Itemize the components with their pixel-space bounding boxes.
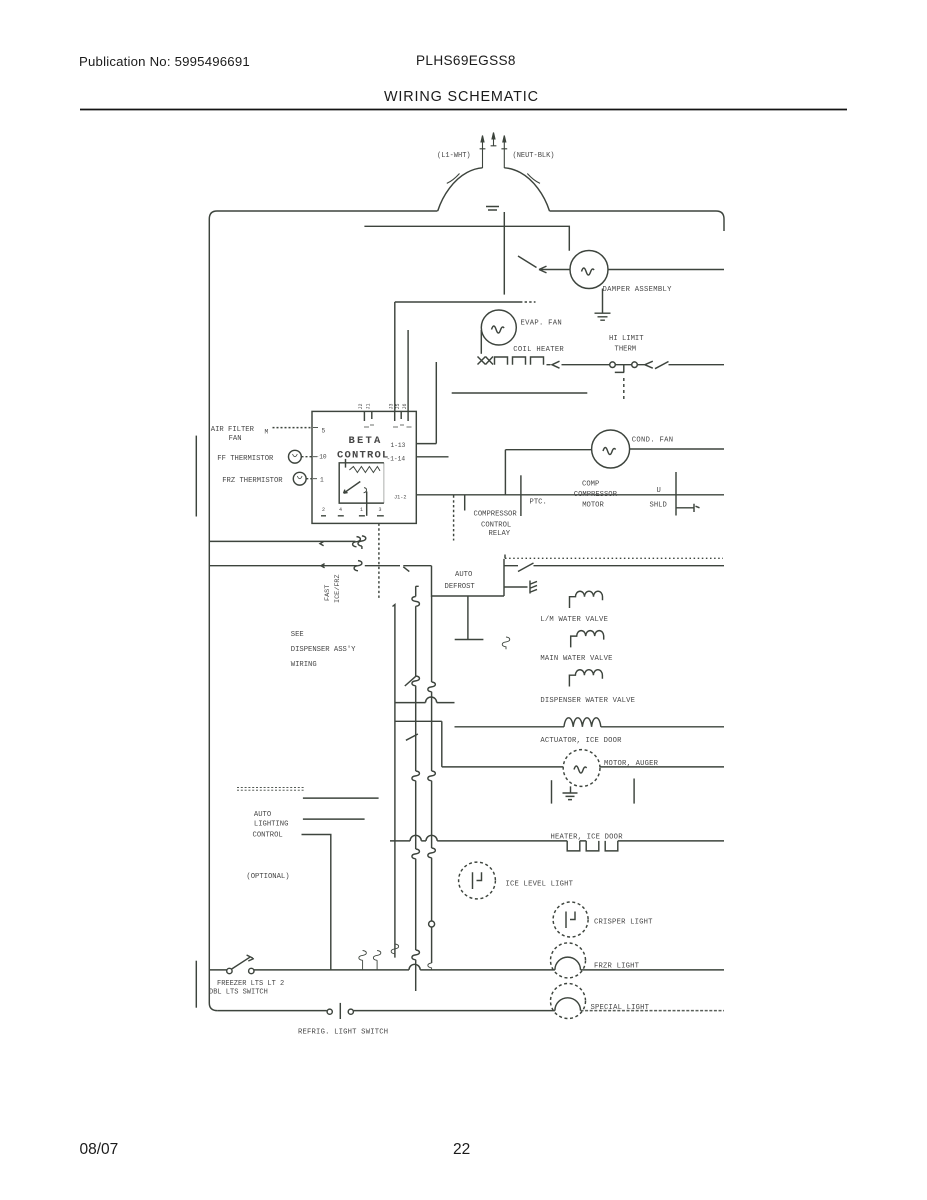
ice level light dashed circle <box>459 862 496 899</box>
wire heater to bimetal <box>562 364 610 366</box>
heater row arrow connector <box>547 361 560 368</box>
board left pin ticks <box>313 428 318 479</box>
svg-text:DISPENSER ASS'Y: DISPENSER ASS'Y <box>291 646 356 654</box>
connector tick on y541 <box>320 542 324 546</box>
svg-text:AUTO: AUTO <box>455 571 472 579</box>
svg-text:L/M WATER VALVE: L/M WATER VALVE <box>540 616 608 624</box>
heater ice door rail with hops over bus B and C <box>390 835 567 841</box>
svg-text:2: 2 <box>322 507 325 513</box>
svg-text:SPECIAL LIGHT: SPECIAL LIGHT <box>591 1004 650 1012</box>
wire into board top pin at x408 <box>407 330 409 411</box>
svg-text:ICE LEVEL LIGHT: ICE LEVEL LIGHT <box>506 880 574 888</box>
crisper light dashed circle <box>553 902 588 937</box>
water valve L/M coil <box>570 591 603 608</box>
special light dashed circle <box>551 984 586 1019</box>
auger motor squiggle <box>574 766 587 773</box>
auger ground symbol <box>563 786 578 799</box>
auto defrost box <box>432 559 505 596</box>
ice level light filament bars <box>473 872 482 889</box>
svg-text:FAN: FAN <box>229 435 242 443</box>
svg-text:EVAP. FAN: EVAP. FAN <box>521 320 563 328</box>
power plug inner strain flares <box>447 174 540 184</box>
svg-text:(NEUT-BLK): (NEUT-BLK) <box>513 152 555 160</box>
lighting control wire D with long drop <box>302 835 331 970</box>
freezer lamp dashed circle <box>551 943 586 978</box>
long vertical bus A (x394.9) <box>393 605 395 958</box>
relay vertical through box bottom to pin <box>366 492 368 516</box>
relay contact curl <box>364 488 367 493</box>
actuator coil bumps <box>564 718 601 727</box>
water valve DISPENSER coil <box>569 670 602 687</box>
svg-text:FRZR LIGHT: FRZR LIGHT <box>594 962 640 970</box>
svg-text:3: 3 <box>379 507 382 513</box>
defrost rail from left edge <box>209 565 357 567</box>
dispenser branch wire y702.6 with hop over bus C <box>395 697 455 703</box>
dashed leader FF thermistor <box>302 456 313 458</box>
defrost bimetal terminal right <box>632 362 638 368</box>
svg-text:(L1-WHT): (L1-WHT) <box>437 152 471 160</box>
auger motor wire right to edge <box>600 766 724 768</box>
bus A bottom hook <box>391 944 399 954</box>
overload shield vertical <box>675 472 677 516</box>
outer cabinet box: top rail left segment <box>217 210 438 212</box>
svg-text:4: 4 <box>339 507 342 513</box>
svg-text:ICE/FRZ: ICE/FRZ <box>334 574 342 603</box>
svg-text:DISPENSER WATER VALVE: DISPENSER WATER VALVE <box>540 697 635 705</box>
svg-text:COIL HEATER: COIL HEATER <box>513 346 564 354</box>
branch wire y721.3 turning down <box>395 721 442 767</box>
svg-text:ACTUATOR, ICE DOOR: ACTUATOR, ICE DOOR <box>540 737 622 745</box>
condenser fan feed wire <box>505 449 591 451</box>
power plug prong L1 <box>480 136 486 169</box>
power plug prong ground (center) <box>491 133 497 147</box>
left margin segment upper <box>195 436 197 517</box>
svg-text:CRISPER LIGHT: CRISPER LIGHT <box>594 918 653 926</box>
svg-text:FREEZER LTS LT 2: FREEZER LTS LT 2 <box>217 980 284 988</box>
bottom rail segment right of special light (faded in scan) <box>581 1010 725 1012</box>
freezer door switch contact right <box>249 968 254 973</box>
ground symbol under damper <box>595 289 611 321</box>
defrost coil heater loops <box>495 357 544 365</box>
svg-text:1: 1 <box>360 507 363 513</box>
compressor relay right vertical <box>520 475 522 516</box>
heater ice door loops <box>567 841 724 851</box>
svg-text:5: 5 <box>322 428 326 435</box>
condenser fan wire to right edge <box>630 448 725 450</box>
long compressor rail y495 from board right pin <box>416 494 724 496</box>
svg-text:08/07: 08/07 <box>80 1141 119 1158</box>
connector stub hooks above freezer rail <box>359 951 367 970</box>
auger motor wire left <box>442 766 563 768</box>
wire stub from board pin 1-14 <box>416 456 448 458</box>
svg-text:LIGHTING: LIGHTING <box>254 820 289 828</box>
svg-text:FRZ THERMISTOR: FRZ THERMISTOR <box>222 477 283 485</box>
capacitor bar left of auger <box>551 780 553 803</box>
freezer door switch blade with arrow <box>232 955 254 969</box>
svg-text:M: M <box>265 429 269 436</box>
actuator ice door wire left <box>455 726 565 728</box>
svg-text:CONTROL: CONTROL <box>253 831 283 839</box>
wire: vertical drop from plug neutral to FF loop <box>503 212 505 295</box>
freezer light rail to lamp <box>254 969 409 971</box>
dispenser switch blade upper <box>405 676 416 686</box>
outer cabinet box: bottom rail (light circuit) left of door switch <box>217 1010 326 1012</box>
FF thermistor glyph <box>293 454 298 457</box>
drop from cond fan wire to compressor relay <box>504 450 506 496</box>
svg-text:BETA: BETA <box>349 435 383 447</box>
defrost timer switch blade <box>403 567 409 572</box>
dashed leader FRZ thermistor <box>306 478 312 480</box>
chassis ground symbol <box>530 581 537 594</box>
defrost coil heater crossed-wire marks <box>478 357 494 365</box>
inline connector hook on defrost rail <box>354 561 362 571</box>
svg-text:J3: J3 <box>389 403 395 409</box>
svg-text:U: U <box>657 487 661 495</box>
wire: vertical from y302 run down into board top <box>394 302 396 411</box>
bus C bottom hook to light rail <box>428 963 432 970</box>
freezer rail right of lamp <box>581 969 725 971</box>
svg-text:CONTROL: CONTROL <box>481 522 511 530</box>
power plug bell housing <box>438 168 550 211</box>
wire: dashed fade end of y302 run <box>520 301 536 303</box>
lighting control wire B <box>303 797 379 799</box>
refrig door switch contact right <box>348 1009 353 1014</box>
defrost bimetal body tab <box>615 365 632 373</box>
freezer light rail from left edge <box>209 969 226 971</box>
FRZ thermistor circle <box>293 472 306 485</box>
damper wire to right edge <box>608 269 724 271</box>
svg-text:COMPRESSOR: COMPRESSOR <box>574 491 618 499</box>
special light lamp loop on bottom rail <box>555 998 581 1011</box>
hop over bus B on freezer rail <box>409 964 555 970</box>
FRZ thermistor glyph <box>297 476 302 479</box>
outer cabinet box: top rail right segment with rounded corner and right stub <box>550 211 725 231</box>
damper switch wire and blade <box>518 256 570 273</box>
auto lighting control dashed double line <box>237 788 304 791</box>
svg-text:WIRING: WIRING <box>291 661 317 669</box>
freezer lamp filament loop <box>555 957 581 970</box>
board top pin ticks <box>364 411 408 421</box>
defrost box output switch to right edge <box>504 563 724 572</box>
svg-text:MOTOR: MOTOR <box>582 502 604 510</box>
svg-text:1-13: 1-13 <box>391 442 406 449</box>
lighting control wire C <box>303 818 365 820</box>
svg-text:FAST: FAST <box>324 585 332 601</box>
svg-text:DBL LTS SWITCH: DBL LTS SWITCH <box>209 988 268 996</box>
svg-text:COMPRESSOR: COMPRESSOR <box>474 511 518 519</box>
water valve MAIN coil <box>571 631 604 648</box>
svg-text:MOTOR, AUGER: MOTOR, AUGER <box>604 760 659 768</box>
defrost rail into auto defrost box <box>403 565 431 567</box>
svg-text:RELAY: RELAY <box>489 530 511 538</box>
evap fan motor squiggle <box>492 326 505 333</box>
ice maker connector hook <box>502 637 510 649</box>
bimetal switch blade and wire to right edge <box>637 361 724 369</box>
svg-text:PTC.: PTC. <box>530 499 547 507</box>
compressor relay box left edge <box>464 495 466 510</box>
wire y541 with end connector <box>209 540 355 542</box>
wire from board pin 1-13 up towards heater <box>416 362 436 444</box>
board bottom pin ticks <box>321 515 384 517</box>
left margin segment lower <box>195 961 197 1008</box>
power plug prong neutral <box>501 136 507 169</box>
dashed sensing line below bimetal <box>623 378 625 400</box>
auger motor dashed circle <box>563 750 600 787</box>
floating wire y393 <box>452 392 588 394</box>
dashed vertical left of relay <box>453 495 455 540</box>
capacitor bar right of auger <box>633 779 635 804</box>
ice maker branch vertical <box>467 596 469 640</box>
bus C inline circle connector <box>429 921 435 927</box>
svg-text:AUTO: AUTO <box>254 811 271 819</box>
dashed line from board pin 3 down <box>378 524 380 600</box>
long vertical bus C (x431.6) with connector hooks <box>431 596 433 682</box>
svg-text:J2: J2 <box>358 403 364 409</box>
defrost rail middle segment <box>365 565 400 567</box>
svg-text:HEATER, ICE DOOR: HEATER, ICE DOOR <box>551 833 624 841</box>
svg-text:1: 1 <box>320 477 324 484</box>
control board U1 outline <box>312 411 416 523</box>
refrig door switch actuator bar <box>339 1003 341 1019</box>
svg-text:MAIN WATER VALVE: MAIN WATER VALVE <box>540 655 612 663</box>
wire: horizontal run to control board pin (y302) <box>395 301 520 303</box>
hook connector below board pin 1 <box>358 536 366 549</box>
relay top entry tick <box>345 459 347 468</box>
svg-text:-1-14: -1-14 <box>387 456 406 463</box>
svg-text:AIR FILTER: AIR FILTER <box>211 426 255 434</box>
header rule <box>80 109 847 111</box>
svg-text:COMP: COMP <box>582 480 599 488</box>
damper motor squiggle <box>582 268 595 275</box>
svg-text:J1: J1 <box>366 403 372 409</box>
svg-text:SHLD: SHLD <box>650 502 667 510</box>
overload shield stub and terminal <box>676 504 700 512</box>
svg-text:DAMPER ASSEMBLY: DAMPER ASSEMBLY <box>603 286 673 294</box>
svg-text:J1-2: J1-2 <box>394 495 406 501</box>
svg-text:DEFROST: DEFROST <box>445 583 476 591</box>
dispenser switch blade lower <box>406 734 418 740</box>
bottom rail segment between door switch and special light <box>354 1010 555 1012</box>
board top inner tiny marks <box>364 425 412 427</box>
svg-text:J6: J6 <box>402 403 408 409</box>
ice maker branch horizontal <box>455 639 484 641</box>
svg-text:SEE: SEE <box>291 631 304 639</box>
defrost bimetal terminal left <box>610 362 616 368</box>
relay switch blade with arrow end <box>344 482 361 494</box>
stub tick at start of dotted rail <box>504 555 506 559</box>
wire: inner top feed from control board to damper <box>364 226 569 251</box>
damper assembly motor circle M <box>570 251 608 289</box>
defrost box chassis stub <box>504 586 528 588</box>
evap fan left lead down to heater row <box>480 330 482 354</box>
svg-text:WIRING SCHEMATIC: WIRING SCHEMATIC <box>384 89 539 105</box>
svg-text:Publication No: 5995496691: Publication No: 5995496691 <box>79 54 250 69</box>
freezer door switch contact left <box>227 968 232 973</box>
condenser fan motor circle <box>592 430 630 468</box>
svg-text:22: 22 <box>453 1141 470 1158</box>
svg-text:(OPTIONAL): (OPTIONAL) <box>246 873 289 881</box>
inline connector hook at end of y541 <box>353 537 361 547</box>
long vertical bus B (x415.7) with connector hooks <box>416 586 419 596</box>
connector tick on defrost rail <box>321 564 325 568</box>
svg-text:COND. FAN: COND. FAN <box>632 437 674 445</box>
outer cabinet box: left edge with rounded corners <box>209 211 217 1011</box>
condenser fan squiggle <box>603 448 616 455</box>
relay coil squiggle <box>349 467 380 473</box>
evaporator fan motor circle <box>481 310 516 345</box>
crisper light filament bars <box>566 912 575 929</box>
svg-text:-10: -10 <box>316 454 327 461</box>
actuator wire right to edge <box>601 726 724 728</box>
svg-text:HI LIMIT: HI LIMIT <box>609 335 644 343</box>
dotted rail above defrost wire <box>505 557 723 559</box>
power plug base marks <box>486 207 499 211</box>
svg-text:J5: J5 <box>395 403 401 409</box>
FF thermistor circle <box>289 450 302 463</box>
relay sub box on board <box>339 463 384 503</box>
svg-text:FF THERMISTOR: FF THERMISTOR <box>217 455 274 463</box>
svg-text:THERM: THERM <box>615 346 637 354</box>
svg-text:PLHS69EGSS8: PLHS69EGSS8 <box>416 53 516 68</box>
refrig door switch contact left <box>327 1009 332 1014</box>
svg-text:REFRIG. LIGHT SWITCH: REFRIG. LIGHT SWITCH <box>298 1028 388 1036</box>
dashed leader air filter fan to board <box>273 427 313 429</box>
